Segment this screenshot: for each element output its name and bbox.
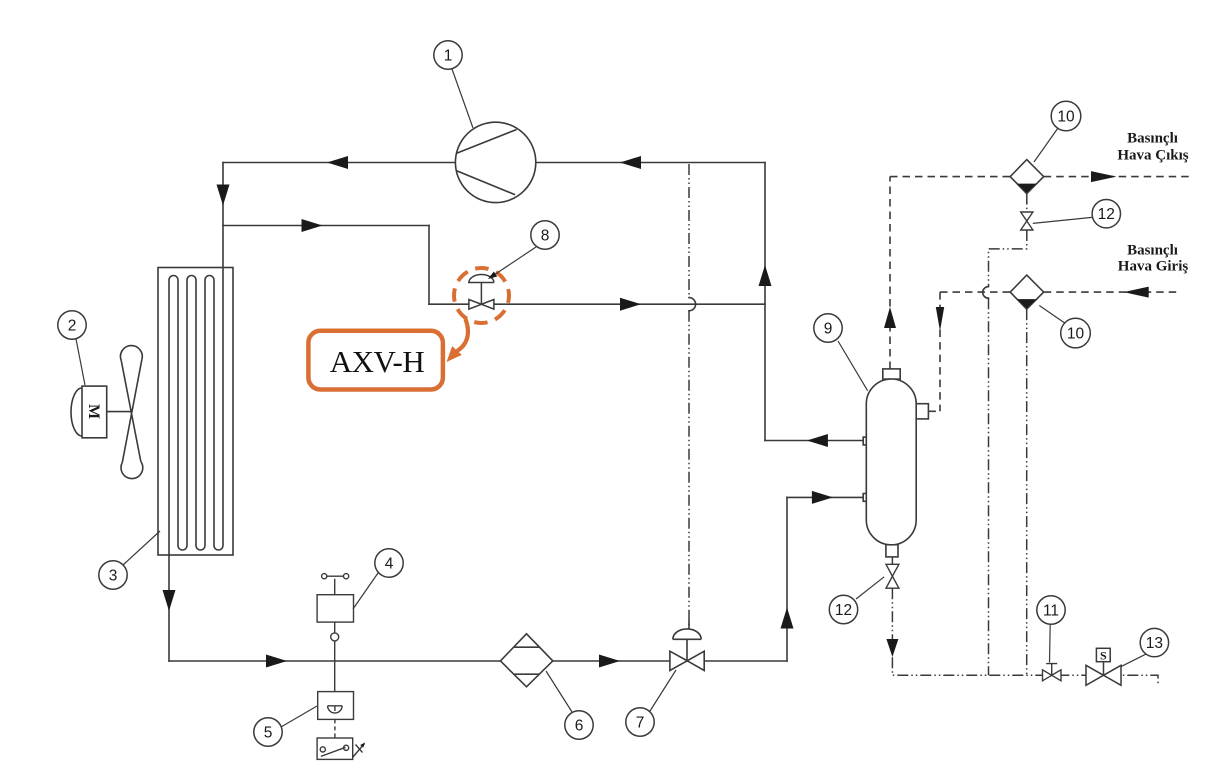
svg-text:13: 13 [1146, 635, 1163, 652]
AXV-H label box [308, 331, 443, 390]
node label 11 [1037, 596, 1065, 624]
arrow right bottom line 2 [599, 655, 620, 668]
orange curved arrow [447, 319, 468, 362]
svg-text:11: 11 [1043, 603, 1059, 620]
leader 3 [123, 531, 160, 565]
svg-text:12: 12 [1098, 206, 1115, 223]
wire dashed vertical x940 [939, 292, 941, 411]
leader 12 bottom [856, 577, 884, 599]
node label 10 bottom [1061, 318, 1091, 348]
arrowhead on leader 8 [488, 272, 497, 280]
pipe jump of drain line over inlet air line [983, 287, 989, 299]
vessel (heat exchanger/separator) 9 [863, 369, 928, 557]
wire dashdot valve12 to offset [989, 230, 1027, 675]
svg-text:9: 9 [824, 321, 833, 338]
wire bottom liquid line y661 [169, 660, 787, 662]
node label 8 [531, 221, 559, 249]
svg-text:Hava Çıkış: Hava Çıkış [1117, 148, 1188, 164]
node label 7 [626, 708, 654, 736]
svg-text:2: 2 [68, 318, 77, 335]
wire dashed into vessel right nozzle [928, 410, 940, 412]
node label 6 [565, 711, 593, 739]
wire dashed outlet air top y176 left [890, 176, 1010, 178]
wire dashed outlet air y176 right [1044, 176, 1189, 178]
drain valve 12 bottom [886, 564, 899, 588]
arrow down x223 [217, 185, 230, 206]
svg-text:Basınçlı: Basınçlı [1127, 243, 1178, 259]
leader 8 [496, 247, 537, 274]
arrow up dashed x890 [884, 307, 896, 328]
wire branch y225 [223, 225, 429, 227]
arrow left y440 [807, 434, 828, 447]
needle valve 11 [1043, 664, 1062, 681]
node label 1 [434, 41, 462, 69]
leader 12 top [1033, 217, 1092, 223]
leader 4 [353, 573, 378, 609]
wire dashdot below inlet filter x1026 [1026, 309, 1028, 675]
fan motor 2 [71, 346, 143, 479]
pressure control 4 [317, 574, 353, 692]
node label 5 [254, 718, 282, 746]
wire right vertical x765 [764, 163, 766, 441]
leader 5 [281, 706, 317, 727]
node Basınçlı Hava Giriş [1118, 243, 1189, 275]
svg-text:10: 10 [1057, 109, 1075, 126]
arrow right y225 [302, 219, 323, 232]
node label 10 top [1051, 101, 1081, 131]
leader 10 top [1034, 128, 1058, 162]
arrow right y304 [620, 298, 641, 311]
condenser 3 [158, 268, 233, 557]
compressor 1 [455, 122, 535, 202]
leader 10 bottom [1039, 306, 1067, 325]
orange highlight circle around valve 8 [454, 268, 509, 323]
wire top discharge line y162 [223, 162, 765, 164]
svg-text:S: S [1100, 649, 1107, 663]
flow arrows [163, 156, 1149, 668]
node label 4 [375, 549, 403, 577]
svg-text:6: 6 [575, 718, 584, 735]
label leaders [76, 69, 1146, 727]
arrow left on top line (suction side) [620, 156, 641, 169]
svg-text:7: 7 [636, 715, 645, 732]
solenoid drain valve 13 [1086, 648, 1121, 685]
wire hot-gas line y304 [429, 303, 765, 305]
arrow left big inlet air [1124, 287, 1149, 298]
valve 12 top [1021, 212, 1033, 230]
leader 7 [650, 670, 676, 711]
svg-text:8: 8 [541, 228, 550, 245]
wire vertical x429 [428, 226, 430, 305]
hot gas bypass valve 8 (AXV-H) [468, 275, 494, 310]
node label 2 [58, 311, 86, 339]
arrow down x169 [163, 590, 176, 611]
wire into vessel lower nozzle y497 [787, 496, 864, 498]
leader 13 [1121, 654, 1147, 667]
svg-text:3: 3 [109, 568, 118, 585]
wire dashed inlet air y292 right [1044, 291, 1180, 293]
node label 9 [814, 314, 842, 342]
svg-text:4: 4 [385, 556, 394, 573]
wire dashdot below valve12 top [1026, 194, 1028, 212]
leader 6 [546, 671, 572, 712]
arrow right bottom line 1 [266, 655, 287, 668]
air inlet filter 10 bottom [1010, 275, 1043, 309]
node label 12 top [1092, 200, 1120, 228]
solenoid/expansion valve 7 [670, 629, 704, 671]
svg-text:12: 12 [835, 602, 852, 619]
node Basınçlı Hava Çıkış [1117, 131, 1188, 164]
svg-text:5: 5 [264, 725, 273, 742]
leader 11 [1049, 624, 1052, 663]
arrow up x787 [781, 608, 794, 629]
svg-text:Hava Giriş: Hava Giriş [1118, 259, 1189, 275]
wire condenser outlet x169 [168, 555, 170, 661]
svg-text:AXV-H: AXV-H [330, 344, 425, 379]
leader 1 [452, 69, 473, 128]
wire dashed inlet air y292 left [940, 291, 1010, 293]
control line stub at valve 7 actuator [688, 621, 690, 629]
node label 3 [99, 561, 127, 589]
leader 2 [76, 339, 85, 385]
arrow down dashdot x892 [886, 639, 898, 657]
arrow right big outlet air [1091, 171, 1117, 182]
arrow down dashed x940 [936, 307, 944, 331]
arrow right y497 [812, 491, 833, 504]
air outlet filter 10 top [1010, 160, 1043, 194]
wire suction into vessel y440 [765, 440, 864, 442]
arrow up x765 [759, 265, 772, 286]
leader 9 [838, 341, 868, 391]
svg-text:M: M [85, 404, 102, 419]
wire dashdot vessel drain stub [891, 557, 893, 564]
pressure switch 5 [317, 692, 365, 760]
filter drier 6 [500, 634, 552, 687]
wire dashed vessel top to corner x890 [889, 177, 891, 369]
node label 12 bottom [829, 595, 857, 623]
svg-text:10: 10 [1067, 326, 1085, 343]
svg-text:Basınçlı: Basınçlı [1127, 131, 1178, 147]
wire dashdot drain line to bottom right [892, 588, 1158, 686]
svg-text:1: 1 [444, 48, 453, 65]
wire dashdot control line x689 [688, 164, 690, 629]
wire left vertical x223 into condenser [222, 163, 224, 268]
label numbers [68, 48, 1163, 742]
pipe jump of control line over hot-gas line [689, 298, 696, 311]
arrow left on top line (condenser side) [327, 156, 348, 169]
wire vertical x787 [786, 497, 788, 661]
node label 13 [1140, 628, 1168, 656]
